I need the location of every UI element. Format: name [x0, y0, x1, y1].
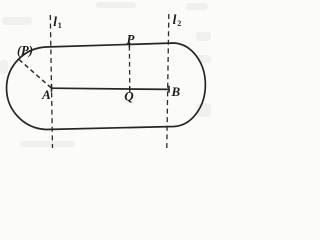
dashed vertical line l2 through B: [167, 14, 169, 148]
tick at P on top edge: [128, 42, 130, 47]
dashed vertical line l1 through A: [50, 15, 52, 148]
tick at Q on AB: [129, 87, 131, 93]
svg-text:1: 1: [58, 21, 62, 30]
svg-text:B: B: [170, 84, 180, 99]
svg-text:Q: Q: [124, 89, 134, 104]
dashed line P to Q: [128, 46, 130, 93]
tick at A: [51, 85, 53, 92]
svg-text:(P): (P): [17, 44, 33, 58]
stadium outline (rounded track shape): [7, 43, 206, 130]
svg-text:P: P: [127, 32, 136, 47]
dashed radius (P) to A: [19, 60, 52, 89]
segment AB: [52, 88, 170, 89]
svg-text:l: l: [53, 14, 57, 29]
tick at B: [168, 86, 170, 93]
svg-text:2: 2: [177, 19, 181, 28]
svg-text:A: A: [41, 87, 51, 102]
faint bleed-through smudges: [0, 2, 211, 147]
paper background: [0, 0, 211, 152]
labels: [17, 12, 181, 104]
svg-text:l: l: [173, 12, 177, 27]
